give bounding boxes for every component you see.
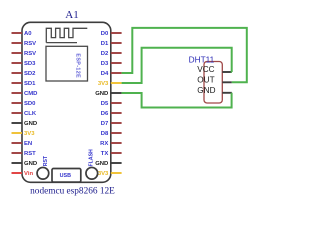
- svg-text:SD3: SD3: [24, 61, 36, 67]
- svg-text:D1: D1: [101, 41, 109, 47]
- pin D8 (right row 11): [101, 131, 122, 137]
- antenna feed line: [46, 42, 77, 44]
- DHT11 pin OUT: [197, 76, 232, 85]
- svg-text:DHT11: DHT11: [189, 54, 215, 64]
- NodeMCU module A1 body: [22, 22, 111, 182]
- pin D7 (right row 10): [101, 121, 122, 127]
- svg-text:3V3: 3V3: [98, 81, 109, 87]
- button FLASH: [86, 149, 98, 179]
- svg-text:SD0: SD0: [24, 101, 36, 107]
- pin D4 (right row 5): [101, 71, 122, 77]
- svg-text:D7: D7: [101, 121, 109, 127]
- svg-text:3V3: 3V3: [24, 131, 35, 137]
- pin GND (right row 14): [95, 161, 121, 167]
- pin 3V3 (right row 6): [98, 81, 122, 87]
- svg-text:D5: D5: [101, 101, 109, 107]
- svg-text:GND: GND: [24, 121, 37, 127]
- antenna meander: [46, 28, 87, 42]
- pin D3 (right row 4): [101, 61, 122, 67]
- svg-text:A0: A0: [24, 31, 32, 37]
- pin GND (left row 14): [12, 161, 38, 167]
- wire D4 to DHT11 OUT: [122, 28, 247, 82]
- svg-text:RSV: RSV: [24, 41, 36, 47]
- svg-text:D4: D4: [101, 71, 109, 77]
- svg-text:D0: D0: [101, 31, 109, 37]
- pin SD2 (left row 5): [12, 71, 37, 77]
- pin Vin (left row 15): [12, 171, 34, 177]
- pin RST (left row 13): [12, 151, 37, 157]
- wire 3V3 to DHT11 VCC: [122, 48, 232, 83]
- svg-text:GND: GND: [197, 86, 215, 95]
- svg-text:OUT: OUT: [197, 76, 214, 85]
- pin D1 (right row 2): [101, 41, 122, 47]
- pin D2 (right row 3): [101, 51, 122, 57]
- svg-text:ESP-12E: ESP-12E: [74, 53, 80, 78]
- svg-text:D3: D3: [101, 61, 109, 67]
- pin SD0 (left row 8): [12, 101, 37, 107]
- pin RSV (left row 2): [12, 41, 37, 47]
- pin RSV (left row 3): [12, 51, 37, 57]
- svg-text:RST: RST: [24, 151, 36, 157]
- svg-text:nodemcu esp8266 12E: nodemcu esp8266 12E: [30, 187, 115, 197]
- pin GND (left row 10): [12, 121, 38, 127]
- DHT11 sensor body: [204, 62, 222, 104]
- pin EN (left row 12): [12, 141, 33, 147]
- svg-text:GND: GND: [24, 161, 37, 167]
- svg-text:RST: RST: [43, 155, 49, 166]
- pin GND (right row 7): [95, 91, 121, 97]
- svg-text:3V3: 3V3: [98, 171, 109, 177]
- svg-text:CLK: CLK: [24, 111, 37, 117]
- svg-text:A1: A1: [65, 9, 78, 21]
- svg-text:SD1: SD1: [24, 81, 36, 87]
- pin TX (right row 13): [101, 151, 122, 157]
- DHT11 pin GND: [197, 86, 232, 95]
- pin CLK (left row 9): [12, 111, 37, 117]
- pin A0 (left row 1): [12, 31, 33, 37]
- button RST: [37, 155, 49, 179]
- pin SD3 (left row 4): [12, 61, 37, 67]
- pin 3V3 (left row 11): [12, 131, 36, 137]
- svg-text:RSV: RSV: [24, 51, 36, 57]
- svg-text:VCC: VCC: [197, 65, 214, 74]
- svg-text:TX: TX: [101, 151, 109, 157]
- pin SD1 (left row 6): [12, 81, 37, 87]
- svg-text:GND: GND: [95, 91, 108, 97]
- pin D5 (right row 8): [101, 101, 122, 107]
- svg-text:Vin: Vin: [24, 171, 33, 177]
- wire GND to DHT11 GND: [122, 93, 232, 108]
- svg-text:RX: RX: [100, 141, 108, 147]
- ESP-12E shield box: [46, 46, 88, 81]
- svg-text:CMD: CMD: [24, 91, 37, 97]
- svg-text:FLASH: FLASH: [88, 149, 94, 167]
- svg-text:D8: D8: [101, 131, 109, 137]
- pin D0 (right row 1): [101, 31, 122, 37]
- pin 3V3 (right row 15): [98, 171, 122, 177]
- pin D6 (right row 9): [101, 111, 122, 117]
- svg-text:D2: D2: [101, 51, 109, 57]
- svg-text:SD2: SD2: [24, 71, 36, 77]
- USB connector: [52, 169, 81, 183]
- svg-text:GND: GND: [95, 161, 108, 167]
- pin CMD (left row 7): [12, 91, 38, 97]
- svg-text:EN: EN: [24, 141, 32, 147]
- svg-text:D6: D6: [101, 111, 109, 117]
- DHT11 pin VCC: [197, 65, 232, 74]
- svg-text:USB: USB: [60, 173, 71, 179]
- pin RX (right row 12): [100, 141, 121, 147]
